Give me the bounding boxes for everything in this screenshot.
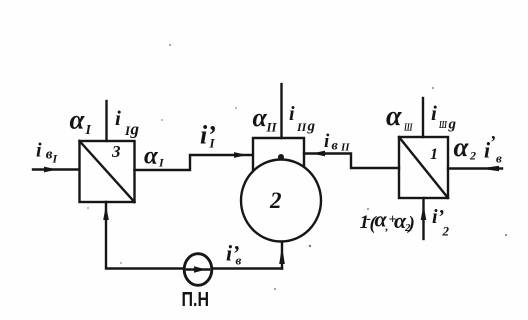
label i'_I [200,121,216,151]
wire through P.N source [187,268,209,271]
label i_IIg [289,103,316,135]
svg-text:3: 3 [111,142,121,161]
machine circle 2 [241,160,321,242]
svg-text:П.Н: П.Н [182,289,210,311]
svg-text:2: 2 [469,149,476,163]
svg-text:II: II [266,120,278,135]
label alpha_III [386,101,413,134]
svg-text:g: g [307,119,316,135]
svg-text:i: i [36,140,42,162]
svg-text:g: g [130,120,140,139]
svg-text:): ) [407,213,415,234]
svg-text:i: i [324,131,330,152]
label alpha_I top [70,105,92,139]
arrow into block 1 right [480,166,499,171]
arrow into machine 2 left [234,152,247,158]
converter block 3 [80,141,135,202]
wire input left [33,168,79,170]
svg-text:I: I [209,136,216,151]
converter block 1 [399,137,448,198]
label i'_B feedback [226,241,242,268]
wire output right of block 1 [448,167,502,169]
label alpha_2 [454,132,477,163]
svg-text:в: в [236,253,242,268]
svg-text:I: I [85,123,92,138]
label i_BII [324,131,350,154]
label i_Ig gate current [115,106,140,139]
svg-text:α: α [253,103,268,132]
svg-text:2: 2 [269,188,282,213]
svg-text:II: II [296,120,308,134]
arrow up into block 1 bottom [421,205,427,220]
svg-text:α: α [144,143,159,170]
wire feedback vertical to machine 2 bottom [281,243,283,269]
junction dot machine 2 top [278,154,284,160]
wire machine 2 right with step [304,154,399,169]
svg-text:g: g [448,117,457,133]
svg-text:1: 1 [430,146,438,163]
svg-text:Ш: Ш [403,122,413,134]
label 1-(a1+a2) [360,207,415,235]
rectangle on machine 2 [253,138,304,171]
svg-text:II: II [340,142,350,154]
arrow up into machine 2 bottom [279,246,285,264]
label alpha_II [253,103,278,135]
arrow input left [44,167,57,173]
label i'_2 [432,206,450,239]
diagonal of block 1 [399,137,448,198]
wire feedback bottom from block 3 [106,202,282,269]
svg-text:i: i [431,101,437,125]
label alpha_I output [144,143,165,170]
wire i'2 input below block 1 [422,198,424,239]
svg-text:2: 2 [442,224,450,239]
svg-text:I: I [158,156,165,170]
diagonal of block 3 [80,141,135,202]
svg-text:i: i [289,103,295,125]
wire gate input top of machine 2 [280,84,282,138]
svg-text:’: ’ [490,132,496,152]
wire gate input top of block 3 [105,101,107,141]
svg-text:α: α [454,132,470,162]
wire gate input top of block 1 [422,98,424,137]
scan speckles [87,44,507,290]
label i'_B output [484,132,502,166]
svg-text:α: α [386,101,402,132]
svg-text:i: i [115,106,121,130]
arrow inside P.N source [194,266,206,272]
arrow up into block 3 bottom [103,205,109,220]
svg-text:в: в [332,139,339,154]
svg-text:в: в [496,151,502,166]
voltage source circle P.N [184,254,212,286]
wire block 3 output with step [135,155,252,170]
svg-text:α: α [70,105,86,135]
arrow into machine 2 right [312,151,325,157]
label i_IIIg [431,101,457,133]
svg-text:Ш: Ш [438,120,447,131]
svg-text:I: I [52,152,59,166]
label i_B1 input current [36,140,59,166]
